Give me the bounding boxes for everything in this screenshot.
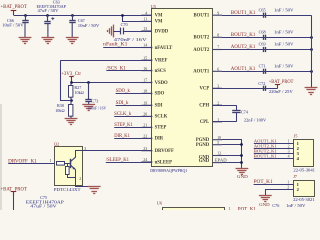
svg-text:1nF / 50V: 1nF / 50V [274, 30, 294, 35]
wire AOUT2_K1 row [222, 49, 311, 51]
svg-text:VCP: VCP [200, 87, 210, 92]
svg-text:C76: C76 [272, 203, 279, 208]
Q2 collector to pin 3 [76, 151, 83, 158]
svg-text:1: 1 [287, 180, 289, 184]
U5 left pin 22 DIR [141, 137, 151, 139]
U5 left pin 14 nFAULT [141, 47, 151, 49]
svg-text:2: 2 [288, 145, 290, 149]
svg-text:nSLEEP: nSLEEP [155, 160, 173, 165]
svg-text:1: 1 [288, 140, 290, 144]
svg-text:8: 8 [217, 33, 219, 37]
svg-text:22-05-3041: 22-05-3041 [293, 167, 315, 172]
U5 right pin 8 BOUT2 [213, 36, 223, 38]
svg-text:CPH: CPH [199, 104, 209, 109]
wire STEP_K1 [114, 127, 151, 129]
wire VREF [60, 60, 151, 62]
svg-text:DRVOFF: DRVOFF [155, 149, 174, 154]
capacitor C71 [263, 69, 265, 74]
node junction C63 [46, 14, 49, 17]
svg-text:10nF / 50V: 10nF / 50V [2, 22, 24, 27]
svg-text:DVDD: DVDD [155, 29, 169, 34]
capacitor C66 [25, 15, 27, 21]
svg-text:47uF / 50V: 47uF / 50V [30, 203, 56, 208]
svg-text:POT_K1: POT_K1 [238, 207, 257, 210]
wire Q2 collector to U5 DRVOFF [83, 150, 152, 152]
J5 pin 3 wire + net label BOUT2_K1 [254, 153, 294, 155]
svg-text:C72: C72 [258, 81, 265, 86]
svg-text:1: 1 [50, 159, 52, 163]
svg-text:100nF / 16V: 100nF / 16V [88, 106, 107, 111]
svg-text:1nF / 50V: 1nF / 50V [274, 64, 294, 69]
ground at Q2 emitter [88, 186, 101, 188]
svg-text:U5: U5 [151, 4, 157, 9]
svg-text:STEP: STEP [155, 126, 167, 131]
svg-text:BOUT1_K1: BOUT1_K1 [231, 11, 256, 16]
U5 left pin 18 SDO [141, 92, 151, 94]
svg-text:9: 9 [217, 11, 219, 15]
wire DVDD to C70 [113, 31, 120, 33]
svg-text:VM: VM [155, 20, 163, 25]
svg-text:4: 4 [145, 11, 147, 15]
svg-text:12: 12 [217, 152, 221, 156]
capacitor C70 [120, 28, 122, 35]
ground left of C70 [113, 25, 115, 38]
wire GND EPAD [222, 162, 242, 164]
node junction pin11 branch [121, 14, 124, 17]
svg-text:10: 10 [217, 136, 221, 140]
svg-text:+BAT_PROT: +BAT_PROT [269, 80, 294, 85]
svg-text:VSDO: VSDO [155, 81, 168, 86]
wire EMI cap ground rail [311, 15, 313, 88]
node junction C67 [71, 14, 74, 17]
U5 right pin 2 CPH [213, 104, 223, 106]
sheet border left edge [0, 104, 2, 210]
node VREF divider junction [70, 99, 73, 102]
svg-text:C71: C71 [259, 64, 266, 69]
svg-text:GND: GND [259, 202, 270, 207]
J7 pin2 wire to ground [266, 190, 294, 196]
U5 left pin 21 STEP [141, 126, 151, 128]
node rail junction AOUT1_K1 [310, 70, 313, 73]
wire CPL [213, 121, 237, 123]
svg-text:3: 3 [217, 84, 219, 88]
U5 left pin 13 DVDD [141, 30, 151, 32]
U5 left pin 17 VSDO [141, 82, 151, 84]
wire gnd rail vertical [241, 140, 243, 168]
U5 left pin 23 DRVOFF [141, 150, 151, 152]
node C73 tap [87, 81, 90, 84]
ground below C73 [82, 104, 95, 106]
svg-text:7: 7 [217, 46, 219, 50]
Q2 internal base-emitter resistor [67, 163, 69, 167]
svg-text:BOUT2_K1: BOUT2_K1 [231, 33, 256, 38]
svg-text:13: 13 [143, 27, 147, 31]
U5 right pin 1 CPL [213, 121, 223, 123]
svg-text:BOUT1: BOUT1 [194, 14, 210, 19]
capacitor C65 [263, 13, 265, 18]
U5 left pin 11 VM [141, 20, 151, 22]
wire PGND pin5 [222, 144, 242, 146]
svg-text:2: 2 [287, 185, 289, 189]
svg-text:DRV8889AQPWPRQ1: DRV8889AQPWPRQ1 [150, 168, 187, 173]
svg-text:SCLK: SCLK [155, 115, 168, 120]
wire VM rail [14, 15, 152, 17]
svg-text:470nF / 16V: 470nF / 16V [114, 37, 147, 42]
svg-text:10kΩ: 10kΩ [74, 90, 83, 95]
ground below C66 [19, 37, 32, 39]
svg-text:Q2: Q2 [54, 141, 59, 146]
capacitor C69 [263, 47, 265, 52]
wire 3V3 to VSDO pin 17 [71, 82, 151, 84]
svg-text:AOUT1_K1: AOUT1_K1 [231, 67, 256, 72]
svg-text:C65: C65 [259, 7, 266, 12]
transistor Q2 PDTC143XT body [55, 147, 83, 186]
svg-text:1: 1 [229, 207, 231, 210]
svg-text:DIR: DIR [155, 137, 164, 142]
U5 left pin 20 SCLK [141, 115, 151, 117]
wire to C75 (off sheet) [13, 192, 15, 210]
wire SCLK_k [114, 116, 151, 118]
wire BOUT2_K1 row [222, 37, 311, 39]
svg-text:VM: VM [155, 14, 163, 19]
capacitor C63 electrolytic [47, 15, 49, 22]
J5 pin 4 wire + net label BOUT1_K1 [254, 158, 294, 160]
op-amp U5 DRV8889AQPWPRQ1 body [152, 9, 213, 167]
svg-text:24: 24 [143, 158, 147, 162]
svg-text:2: 2 [79, 177, 81, 181]
svg-text:GND: GND [199, 159, 210, 164]
svg-text:220nF / 25V: 220nF / 25V [269, 89, 293, 94]
svg-text:AOUT2_K1: AOUT2_K1 [231, 45, 256, 50]
node gnd rail junctions [240, 143, 243, 146]
Q2 NPN symbol [70, 159, 72, 168]
svg-text:VREF: VREF [155, 59, 168, 64]
wire POT_K1 [254, 184, 294, 186]
wire PGND pin10 [222, 139, 242, 141]
svg-text:GND: GND [237, 174, 249, 179]
wire CPH [213, 105, 237, 107]
svg-text:SDO: SDO [155, 92, 165, 97]
svg-text:PGND: PGND [196, 143, 210, 148]
capacitor C72 [263, 86, 265, 91]
wire /SCS_K1 [106, 70, 151, 72]
ground EMI rail [305, 87, 318, 89]
wire GND pin12 [222, 155, 242, 157]
wire SDI_k [116, 105, 151, 107]
svg-text:AOUT2: AOUT2 [193, 48, 210, 53]
svg-text:C69: C69 [259, 42, 266, 47]
U5 right pin 3 VCP [213, 87, 223, 89]
ground below J7 pin2 [259, 195, 272, 197]
svg-text:AOUT1: AOUT1 [193, 70, 210, 75]
node rail junction BOUT2_K1 [310, 36, 313, 39]
svg-text:5: 5 [217, 141, 219, 145]
wire AOUT1_K1 row [222, 71, 311, 73]
wire nFault [103, 47, 151, 49]
capacitor C67 [72, 15, 74, 21]
wire Q2 emitter to ground [76, 186, 95, 187]
wire BOUT1_K1 row [222, 15, 311, 17]
wire nSLEEP [106, 162, 151, 164]
U5 right pin 9 BOUT1 [213, 14, 223, 16]
svg-text:3: 3 [288, 150, 290, 154]
svg-text:nFAULT: nFAULT [155, 46, 174, 51]
resistor R27 [70, 83, 72, 86]
Q2 internal base resistor [57, 162, 65, 166]
U5 right pin 10 PGND [213, 139, 223, 141]
svg-text:BOUT2: BOUT2 [194, 36, 210, 41]
svg-text:nFault_K1: nFault_K1 [103, 43, 128, 48]
U5 right pin 5 PGND [213, 144, 223, 146]
svg-text:15: 15 [143, 56, 147, 60]
svg-text:C74: C74 [241, 110, 249, 115]
svg-text:C73: C73 [91, 99, 98, 104]
svg-text:SDI: SDI [155, 104, 163, 109]
svg-text:U6: U6 [157, 201, 163, 206]
svg-text:19: 19 [143, 102, 147, 106]
connector J5 body [294, 140, 314, 167]
capacitor C74 [236, 105, 238, 110]
wire branch to pin 11 [123, 16, 152, 22]
svg-text:1nF / 50V: 1nF / 50V [274, 42, 294, 47]
capacitor C73 [88, 83, 90, 100]
Q2 emitter to pin 2 [75, 170, 77, 186]
capacitor C68 [263, 35, 265, 40]
svg-text:6: 6 [217, 67, 219, 71]
U5 left pin 15 VREF [141, 59, 151, 61]
connector J7 body [294, 181, 315, 197]
U5 right pin 7 AOUT2 [213, 49, 223, 51]
svg-text:2: 2 [217, 101, 219, 105]
U5 left pin 16 nSCS [141, 70, 151, 72]
svg-text:1nF / 50V: 1nF / 50V [286, 203, 306, 208]
svg-text:4: 4 [288, 155, 290, 159]
svg-text:C70: C70 [121, 22, 128, 27]
U5 left pin 24 nSLEEP [141, 161, 151, 163]
svg-text:1nF / 50V: 1nF / 50V [274, 7, 294, 12]
U5 right pin 12 GND [213, 155, 223, 157]
node junction C66 [24, 14, 27, 17]
IC U6 (cut off at bottom) [163, 208, 225, 214]
resistor R30 [69, 105, 73, 117]
ground main GND [236, 168, 249, 170]
svg-text:10kΩ: 10kΩ [55, 108, 64, 113]
svg-text:PDTC143XT: PDTC143XT [54, 187, 81, 192]
svg-text:47uF / 50V: 47uF / 50V [38, 8, 59, 13]
node rail junction AOUT2_K1 [310, 48, 313, 51]
wire VCP [213, 88, 278, 90]
ground below R30 [65, 118, 78, 120]
wire DIR_K1 [114, 138, 151, 140]
ground below C67 [66, 37, 79, 39]
ground below C63 [42, 37, 55, 39]
svg-text:CPL: CPL [200, 120, 209, 125]
node R27 top [70, 81, 73, 84]
svg-text:22nF / 100V: 22nF / 100V [244, 118, 266, 123]
svg-text:C68: C68 [259, 30, 266, 35]
svg-text:EPAD: EPAD [215, 158, 227, 162]
J5 pin 1 wire + net label AOUT1_K1 [254, 143, 294, 145]
U5 left pin 4 VM [141, 14, 151, 16]
svg-text:10nF / 50V: 10nF / 50V [78, 23, 100, 28]
wire DRVOFF to Q2 base pin 1 [8, 163, 54, 165]
wire SDO_k [116, 93, 151, 95]
svg-text:22-05-3021: 22-05-3021 [293, 197, 315, 202]
J5 pin 2 wire + net label AOUT2_K1 [254, 148, 294, 150]
svg-text:nSCS: nSCS [155, 69, 167, 74]
U5 right pin 6 AOUT1 [213, 70, 223, 72]
U5 left pin 19 SDI [141, 104, 151, 106]
svg-text:BOUT1_K1: BOUT1_K1 [254, 154, 278, 159]
U5 right pin EPAD GND [213, 162, 223, 164]
svg-text:+BAT_PROT: +BAT_PROT [0, 4, 27, 10]
